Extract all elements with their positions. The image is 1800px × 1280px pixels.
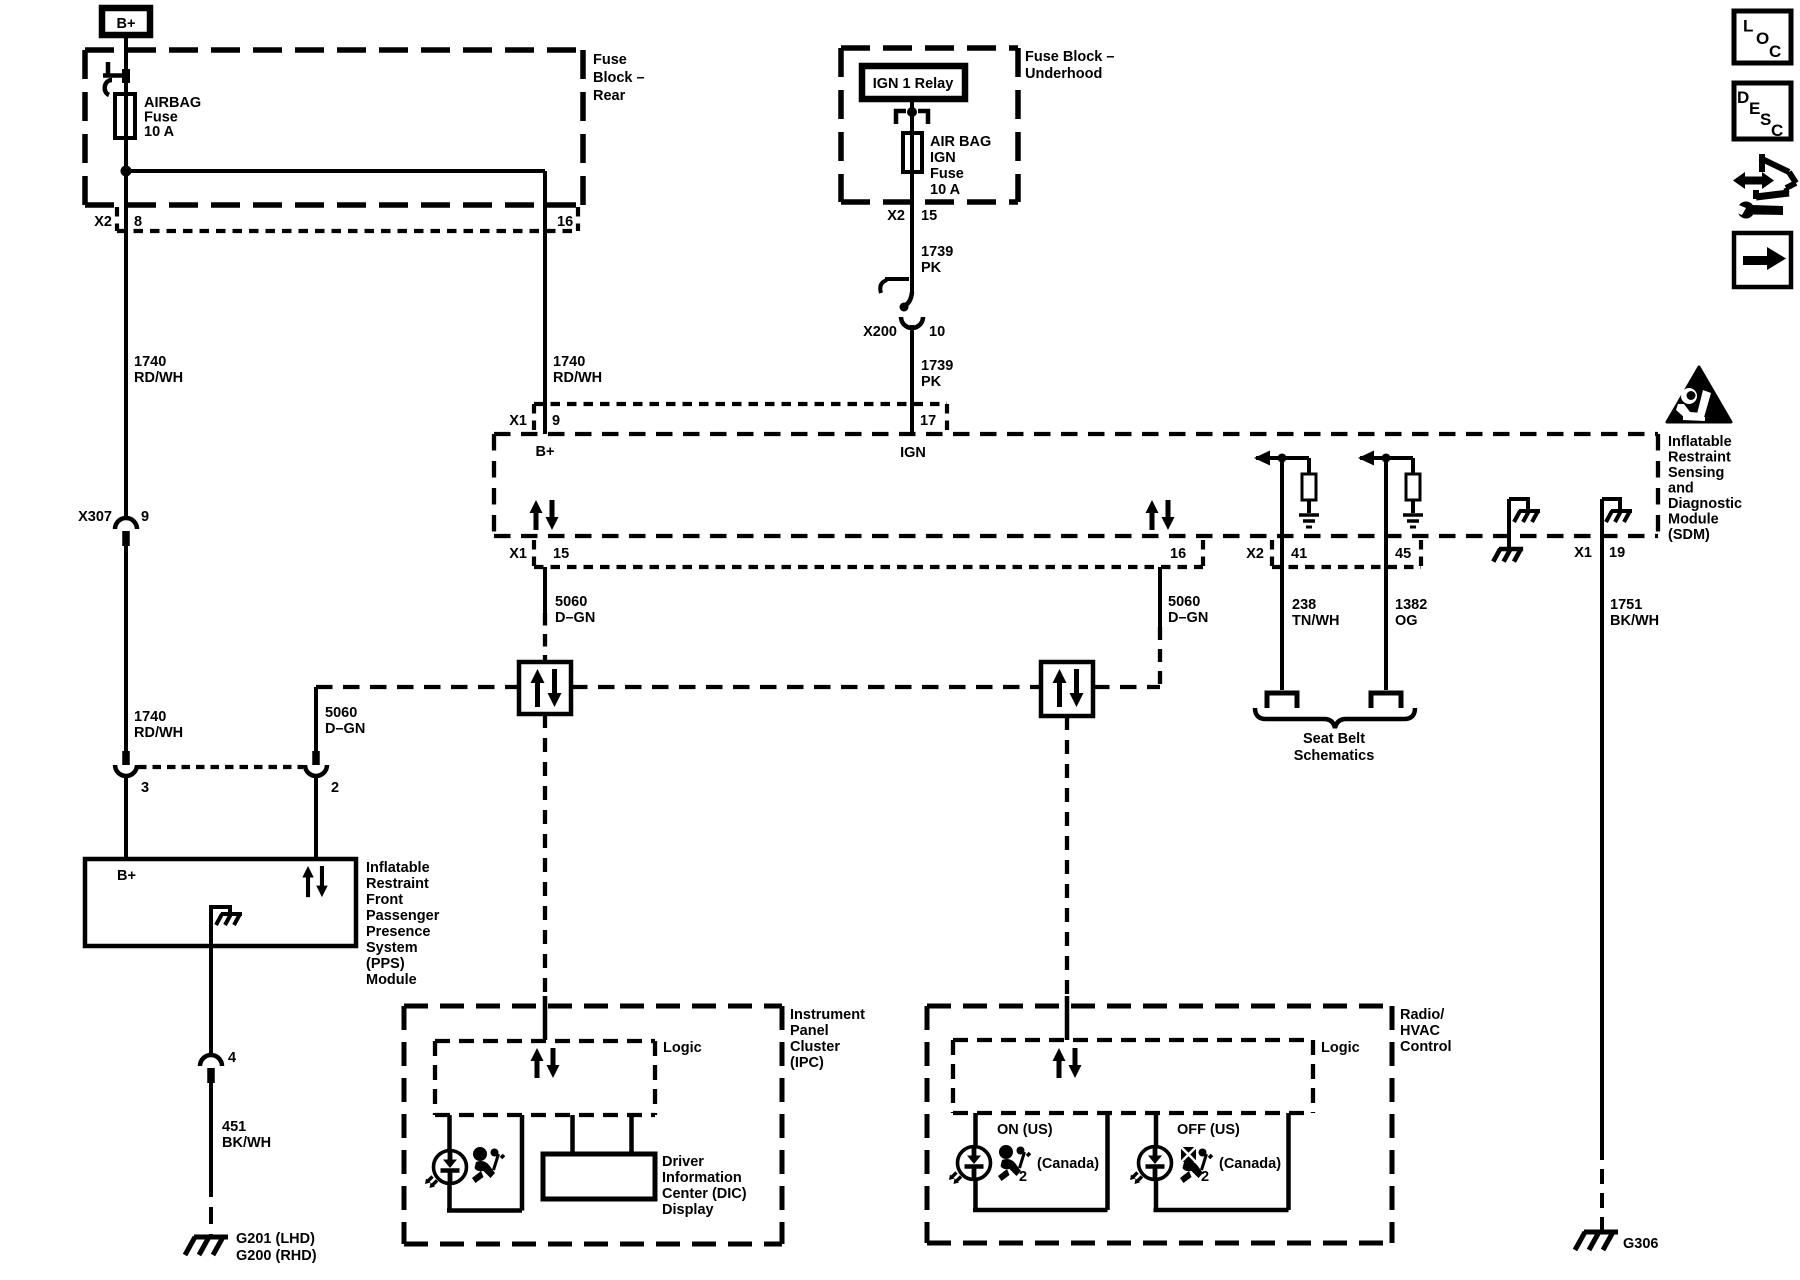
svg-text:2: 2 <box>1019 1169 1027 1185</box>
connector pin 4 <box>200 1055 222 1066</box>
svg-text:Driver: Driver <box>662 1154 704 1170</box>
svg-text:238: 238 <box>1292 597 1316 613</box>
svg-text:Block –: Block – <box>593 70 645 86</box>
svg-text:Instrument: Instrument <box>790 1007 865 1023</box>
sidebar DESC button <box>1734 83 1791 140</box>
svg-text:16: 16 <box>1170 546 1186 562</box>
svg-text:D–GN: D–GN <box>555 610 595 626</box>
Radio/HVAC outer dashed box <box>927 1006 1392 1243</box>
connector strip X2 of fuse block rear <box>117 207 578 231</box>
svg-text:X307: X307 <box>78 509 112 525</box>
svg-text:5060: 5060 <box>325 705 357 721</box>
svg-text:4: 4 <box>228 1050 236 1066</box>
svg-text:Module: Module <box>1668 512 1719 528</box>
fuse block rear dashed box <box>85 50 583 205</box>
svg-text:X2: X2 <box>887 208 905 224</box>
earth ground at pin 41 <box>1299 515 1319 527</box>
svg-text:E: E <box>1749 99 1760 118</box>
B+ power symbol box <box>102 8 150 35</box>
svg-text:G200 (RHD): G200 (RHD) <box>236 1248 317 1264</box>
svg-text:Passenger: Passenger <box>366 908 440 924</box>
svg-text:D–GN: D–GN <box>325 721 365 737</box>
svg-text:10 A: 10 A <box>930 182 961 198</box>
svg-text:(Canada): (Canada) <box>1219 1156 1281 1172</box>
serial data arrows in PPS <box>302 866 327 897</box>
connector X307 pin 9 <box>115 518 137 529</box>
LED indicator OFF <box>1130 1147 1172 1185</box>
svg-text:BK/WH: BK/WH <box>1610 613 1659 629</box>
LED indicator IPC <box>425 1151 467 1189</box>
svg-text:HVAC: HVAC <box>1400 1023 1441 1039</box>
branch pin 41: arrow, resistor, ground <box>1256 458 1309 513</box>
wire relay to X200 <box>910 102 914 294</box>
SDM module dashed box <box>494 434 1658 536</box>
junction node <box>121 166 132 177</box>
svg-text:Panel: Panel <box>790 1023 829 1039</box>
connector pin 2 of PPS <box>312 751 320 765</box>
svg-text:(IPC): (IPC) <box>790 1055 824 1071</box>
wire B+ to AIRBAG fuse <box>124 36 128 516</box>
svg-text:Fuse: Fuse <box>593 52 627 68</box>
airbag person icon IPC <box>472 1147 504 1183</box>
svg-text:B+: B+ <box>117 868 136 884</box>
svg-text:Schematics: Schematics <box>1294 748 1375 764</box>
connector strip X2 of SDM (pins 41,45) <box>1272 540 1421 567</box>
svg-text:15: 15 <box>921 208 937 224</box>
svg-text:3: 3 <box>141 780 149 796</box>
svg-text:Logic: Logic <box>663 1040 702 1056</box>
wire PPS to connector pin 4 <box>209 946 213 1055</box>
PPS chassis ground symbol <box>216 914 242 925</box>
wire 1751 BK/WH <box>1600 499 1604 1145</box>
svg-text:IGN: IGN <box>930 150 956 166</box>
svg-text:X1: X1 <box>509 546 527 562</box>
svg-text:10: 10 <box>929 324 945 340</box>
svg-text:45: 45 <box>1395 546 1411 562</box>
svg-text:L: L <box>1743 17 1753 36</box>
svg-text:(PPS): (PPS) <box>366 956 405 972</box>
serial data arrows at SDM pin 15 <box>530 500 559 530</box>
ground G201/G200 <box>185 1237 228 1255</box>
svg-text:G306: G306 <box>1623 1236 1658 1252</box>
svg-text:1739: 1739 <box>921 244 953 260</box>
seat belt terminal pin 45 <box>1371 693 1401 708</box>
LED indicator ON <box>949 1147 991 1185</box>
wire junction to pin16 <box>126 169 545 173</box>
IPC logic dashed box <box>435 1041 655 1115</box>
chassis ground symbol upper <box>1514 511 1540 522</box>
DIC display box <box>543 1154 655 1199</box>
IPC airbag indicator loop <box>447 1115 522 1211</box>
DIC stubs <box>570 1115 575 1154</box>
svg-text:1751: 1751 <box>1610 597 1642 613</box>
svg-text:IGN: IGN <box>900 445 926 461</box>
svg-text:Presence: Presence <box>366 924 431 940</box>
svg-text:Center (DIC): Center (DIC) <box>662 1186 747 1202</box>
svg-text:1739: 1739 <box>921 358 953 374</box>
airbag warning triangle icon <box>1667 367 1731 422</box>
svg-text:PK: PK <box>921 260 942 276</box>
wire pin16 down to SDM B+ pin 9 <box>543 171 547 434</box>
svg-text:B+: B+ <box>117 16 136 32</box>
wire 451 dashed tail <box>209 1180 213 1236</box>
svg-text:D–GN: D–GN <box>1168 610 1208 626</box>
svg-text:9: 9 <box>552 413 560 429</box>
connector strip X1 top of SDM (pins 9,17) <box>534 404 947 430</box>
serial data arrows in IPC logic <box>531 1048 560 1078</box>
SDM internal case ground (left) <box>1509 499 1528 548</box>
svg-text:41: 41 <box>1291 546 1307 562</box>
svg-text:Module: Module <box>366 972 417 988</box>
svg-text:5060: 5060 <box>555 594 587 610</box>
svg-text:C: C <box>1771 121 1783 140</box>
PPS internal ground path <box>211 907 230 946</box>
svg-text:451: 451 <box>222 1119 246 1135</box>
connector strip X1 bottom of SDM (pins 15,16) <box>534 540 1203 567</box>
wire X200 to SDM IGN pin 17 <box>910 325 914 434</box>
seat belt terminal pin 41 <box>1267 693 1297 708</box>
wire pin 45 <box>1384 458 1388 690</box>
Radio OFF indicator loop <box>1154 1113 1289 1210</box>
svg-text:9: 9 <box>141 509 149 525</box>
svg-text:8: 8 <box>134 214 142 230</box>
resistor at pin 41 <box>1302 474 1316 500</box>
svg-text:C: C <box>1769 42 1781 61</box>
svg-text:Cluster: Cluster <box>790 1039 840 1055</box>
svg-text:OFF (US): OFF (US) <box>1177 1122 1240 1138</box>
svg-text:AIR BAG: AIR BAG <box>930 134 991 150</box>
sidebar next-page arrow button <box>1734 233 1791 287</box>
wire 5060 corner to pin 2 <box>314 687 318 752</box>
svg-text:Information: Information <box>662 1170 742 1186</box>
svg-text:Radio/: Radio/ <box>1400 1007 1444 1023</box>
relay IGN 1 box <box>862 66 965 99</box>
svg-text:Inflatable: Inflatable <box>1668 434 1732 450</box>
svg-text:17: 17 <box>920 413 936 429</box>
branch pin 45: arrow, resistor, ground <box>1360 458 1413 513</box>
svg-text:Fuse Block –: Fuse Block – <box>1025 49 1114 65</box>
svg-text:Restraint: Restraint <box>366 876 429 892</box>
wire pin 41 <box>1280 458 1284 690</box>
svg-text:10 A: 10 A <box>144 124 175 140</box>
wire 1751 dashed tail <box>1600 1145 1604 1231</box>
svg-text:2: 2 <box>1201 1169 1209 1185</box>
svg-text:OG: OG <box>1395 613 1418 629</box>
svg-text:D: D <box>1737 88 1749 107</box>
svg-text:Logic: Logic <box>1321 1040 1360 1056</box>
svg-text:RD/WH: RD/WH <box>134 370 183 386</box>
svg-text:1740: 1740 <box>134 709 166 725</box>
chassis ground symbol lower <box>1493 549 1523 562</box>
svg-text:Underhood: Underhood <box>1025 66 1102 82</box>
svg-text:TN/WH: TN/WH <box>1292 613 1340 629</box>
fuse block underhood dashed box <box>841 48 1018 202</box>
SDM internal case ground at pin 19 <box>1602 499 1620 511</box>
fuse holder clips <box>896 111 928 124</box>
IPC outer dashed box <box>404 1006 782 1244</box>
svg-text:RD/WH: RD/WH <box>134 725 183 741</box>
svg-text:Display: Display <box>662 1202 714 1218</box>
svg-text:5060: 5060 <box>1168 594 1200 610</box>
svg-text:(Canada): (Canada) <box>1037 1156 1099 1172</box>
svg-text:O: O <box>1756 29 1769 48</box>
wire 5060 D-GN from pin 16 <box>1158 567 1162 627</box>
serial data bus dashed wire right <box>1093 685 1160 689</box>
dashed wire to IPC <box>543 714 547 996</box>
sidebar LOC button <box>1734 11 1791 63</box>
svg-text:X1: X1 <box>509 413 527 429</box>
svg-text:Diagnostic: Diagnostic <box>1668 496 1742 512</box>
svg-text:PK: PK <box>921 374 942 390</box>
wire X307 to PPS pin 3 <box>124 546 128 752</box>
dashed wire to Radio <box>1065 716 1069 996</box>
svg-text:S: S <box>1760 110 1771 129</box>
serial data bus dashed wire middle <box>571 685 1041 689</box>
fuse AIRBAG 10A <box>115 94 135 138</box>
serial data arrow box left <box>519 662 571 714</box>
connector pin 3 of PPS <box>122 751 130 765</box>
wire 5060 D-GN from pin 15 <box>543 567 547 613</box>
svg-text:IGN 1 Relay: IGN 1 Relay <box>873 76 954 92</box>
serial data arrows at SDM pin 16 <box>1146 500 1175 530</box>
Radio logic dashed box <box>953 1040 1313 1113</box>
ground G306 <box>1575 1232 1618 1250</box>
svg-text:Front: Front <box>366 892 403 908</box>
svg-text:2: 2 <box>331 780 339 796</box>
fuse holder terminal symbol <box>103 62 130 95</box>
svg-text:1740: 1740 <box>134 354 166 370</box>
serial data arrow box right <box>1041 662 1093 716</box>
fuse AIR BAG IGN 10A <box>903 133 922 172</box>
brace seat belt schematics <box>1255 708 1415 728</box>
svg-text:16: 16 <box>557 214 573 230</box>
resistor at pin 45 <box>1406 474 1420 500</box>
svg-text:G201 (LHD): G201 (LHD) <box>236 1231 315 1247</box>
svg-text:Seat Belt: Seat Belt <box>1303 731 1365 747</box>
svg-text:RD/WH: RD/WH <box>553 370 602 386</box>
svg-text:X2: X2 <box>94 214 112 230</box>
serial data bus dashed wire left <box>316 685 519 689</box>
connector X200 pin 10 <box>880 279 923 328</box>
svg-text:BK/WH: BK/WH <box>222 1135 271 1151</box>
svg-text:System: System <box>366 940 418 956</box>
earth ground at pin 45 <box>1403 515 1423 527</box>
svg-text:X200: X200 <box>863 324 897 340</box>
wire 451 BK/WH <box>209 1083 213 1180</box>
svg-text:ON (US): ON (US) <box>997 1122 1053 1138</box>
svg-text:X2: X2 <box>1246 546 1264 562</box>
svg-text:Restraint: Restraint <box>1668 450 1731 466</box>
airbag person icon ON <box>998 1145 1030 1181</box>
svg-text:Inflatable: Inflatable <box>366 860 430 876</box>
svg-text:Fuse: Fuse <box>930 166 964 182</box>
svg-text:and: and <box>1668 481 1694 497</box>
svg-text:15: 15 <box>553 546 569 562</box>
wire pin2 to PPS <box>314 776 318 859</box>
sidebar diagnostic icon (arrows, outline, wrench) <box>1729 154 1796 219</box>
svg-text:(SDM): (SDM) <box>1668 527 1710 543</box>
svg-text:1382: 1382 <box>1395 597 1427 613</box>
svg-text:X1: X1 <box>1574 545 1592 561</box>
svg-text:Sensing: Sensing <box>1668 465 1724 481</box>
svg-text:1740: 1740 <box>553 354 585 370</box>
PPS module box <box>85 859 356 946</box>
wire pin3 to PPS <box>124 776 128 859</box>
dotted harness link pin3-pin2 <box>138 765 303 769</box>
airbag person icon OFF crossed <box>1180 1147 1212 1183</box>
svg-text:Control: Control <box>1400 1039 1452 1055</box>
Radio ON indicator loop <box>973 1113 1108 1210</box>
svg-text:19: 19 <box>1609 545 1625 561</box>
svg-text:B+: B+ <box>536 444 555 460</box>
serial data arrows in Radio logic <box>1053 1048 1082 1078</box>
svg-text:Rear: Rear <box>593 88 626 104</box>
